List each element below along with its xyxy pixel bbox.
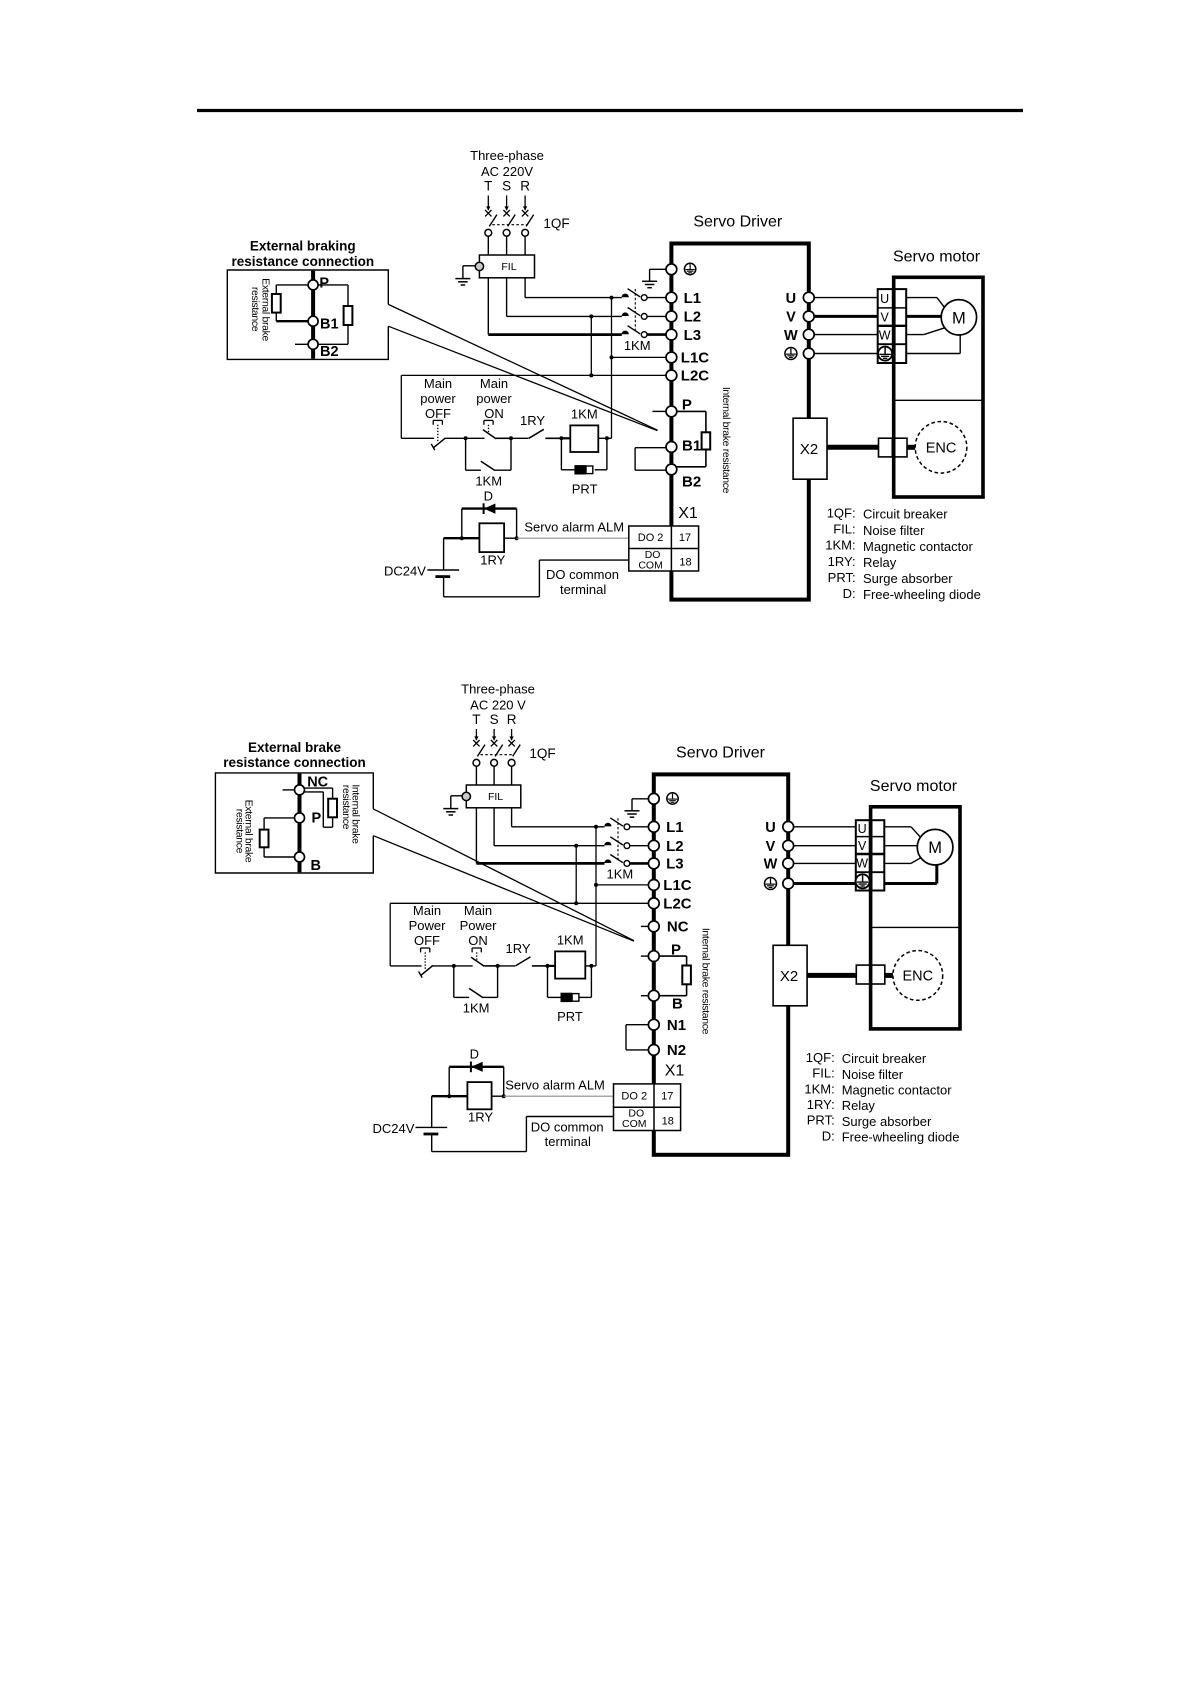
junction dot diode right D2	[502, 1094, 506, 1098]
legend row 1QF D2	[806, 1050, 927, 1066]
svg-text:V: V	[881, 310, 890, 324]
svg-text:Three-phase: Three-phase	[470, 148, 544, 163]
svg-text:R: R	[507, 712, 517, 727]
wire L2 down to L2C D2	[575, 846, 577, 904]
wire 1RY to dot D1	[504, 537, 516, 539]
junction L1C tap D1	[610, 355, 614, 359]
svg-text:DO common: DO common	[546, 567, 619, 582]
pushbutton Main power ON D2	[454, 948, 498, 966]
svg-text:PRT:: PRT:	[828, 570, 856, 585]
svg-text:External brake: External brake	[248, 740, 342, 755]
earth symbol at driver input D1	[684, 263, 695, 274]
svg-text:S: S	[490, 712, 499, 727]
svg-text:PRT: PRT	[572, 482, 598, 497]
surge absorber PRT body2 D2	[572, 994, 579, 1002]
internal brake resistance branch D1	[677, 411, 706, 466]
motor M circle D1	[941, 300, 976, 335]
magnetic contactor 1KM main contact L1 D2	[604, 818, 649, 830]
junction dot coil-PRT D2	[589, 964, 593, 968]
svg-text:L2C: L2C	[681, 368, 710, 385]
svg-text:DO common: DO common	[531, 1119, 604, 1134]
junction dot diode left D1	[460, 536, 464, 540]
stub NC ext D2	[283, 789, 295, 791]
earth symbol at driver input D2	[667, 793, 678, 804]
svg-text:resistance connection: resistance connection	[232, 254, 375, 269]
ground at FIL D1	[455, 266, 475, 285]
terminal B1 D1	[666, 442, 677, 453]
svg-text:ON: ON	[468, 933, 488, 948]
wire L2C left drop D1	[400, 375, 402, 438]
svg-text:D: D	[470, 1047, 479, 1062]
circuit breaker 1QF pole S D1	[503, 210, 515, 236]
svg-text:L1: L1	[684, 290, 702, 307]
svg-text:D:: D:	[843, 586, 856, 601]
svg-text:1KM:: 1KM:	[825, 538, 855, 553]
1KM auxiliary contact branch D2	[454, 966, 498, 998]
wire L2C feed D2	[390, 902, 649, 904]
cable stub to ENC D2	[885, 973, 893, 978]
1KM linkage dashed D1	[634, 289, 636, 333]
svg-text:Three-phase: Three-phase	[461, 682, 535, 697]
terminal L3 D1	[666, 329, 677, 340]
svg-text:Magnetic contactor: Magnetic contactor	[842, 1083, 953, 1098]
svg-text:T: T	[484, 179, 492, 194]
cable stub to ENC D1	[907, 445, 915, 450]
terminal P ext D1	[308, 280, 318, 290]
svg-text:P: P	[319, 276, 329, 292]
junction dot ON-1RY D1	[509, 436, 513, 440]
wire FIL to L2 D2	[493, 808, 495, 846]
svg-text:P: P	[312, 811, 322, 827]
external brake resistor branch D1	[276, 285, 308, 321]
svg-text:DO 2: DO 2	[621, 1090, 647, 1102]
svg-text:1QF:: 1QF:	[827, 506, 856, 521]
svg-text:Servo motor: Servo motor	[893, 248, 981, 265]
jumper N1-N2 D2	[626, 1025, 649, 1050]
junction L2 tap D1	[589, 314, 593, 318]
svg-text:L2: L2	[684, 309, 702, 326]
svg-text:terminal: terminal	[560, 582, 606, 597]
wire L1 horizontal D2	[512, 826, 605, 828]
terminal L2C D2	[648, 898, 659, 909]
svg-text:U: U	[786, 291, 796, 307]
legend row D D1	[843, 586, 981, 602]
motor terminal strip D2	[856, 820, 885, 890]
resistor internal ext D1	[344, 306, 353, 325]
wire FIL to L3 D1	[487, 278, 489, 335]
earth symbol output D2	[765, 878, 777, 890]
wire FIL to L2 D1	[506, 278, 508, 317]
pushbutton Main power OFF D2	[390, 948, 454, 978]
svg-text:B2: B2	[682, 474, 701, 491]
wire breaker to FIL D1	[487, 236, 489, 255]
motor compartment divider D2	[871, 926, 960, 928]
legend row 1QF D1	[827, 506, 949, 522]
magnetic contactor 1KM main contact L2 D1	[622, 308, 667, 320]
svg-text:X2: X2	[780, 968, 798, 985]
svg-text:Main: Main	[480, 376, 508, 391]
circuit breaker 1QF linkage dashed D1	[492, 224, 526, 226]
svg-text:B: B	[311, 858, 321, 874]
relay contact 1RY D1	[511, 429, 561, 438]
terminal E D2	[648, 793, 659, 804]
relay coil 1RY D1	[479, 523, 504, 552]
junction dot 1RY-coil D1	[559, 436, 563, 440]
wire U strip to M D2	[884, 827, 921, 838]
resistor external brake D2	[260, 830, 269, 848]
encoder cable X2 to motor D2	[807, 973, 856, 978]
junction L2C tap D1	[589, 373, 593, 377]
wire to 1KM coil D1	[561, 437, 570, 439]
wire breaker to FIL D1	[506, 236, 508, 255]
free-wheeling diode D D1	[462, 503, 517, 538]
1KM auxiliary contact branch D1	[466, 438, 511, 470]
label DO common terminal D2	[531, 1119, 604, 1149]
wire V driver to strip D2	[794, 845, 856, 847]
driver output terminal U D1	[803, 292, 814, 303]
wire L2 horizontal D1	[507, 315, 622, 317]
label external brake resistance D1	[249, 278, 272, 341]
wire V driver to strip D1	[814, 315, 878, 318]
wire breaker to FIL D2	[475, 766, 477, 785]
resistor external brake D1	[272, 294, 281, 313]
wire to 1KM coil D2	[548, 965, 556, 967]
wire L1 down to control D2	[595, 827, 597, 966]
svg-text:T: T	[472, 712, 480, 727]
strip earth symbol D2	[856, 874, 870, 888]
junction dot 1RY-coil D2	[546, 964, 550, 968]
terminal NC ext D2	[295, 785, 305, 795]
legend row PRT D1	[828, 570, 954, 586]
svg-text:D:: D:	[822, 1128, 835, 1143]
svg-text:1KM: 1KM	[475, 474, 502, 489]
magnetic contactor 1KM main contact L2 D2	[604, 837, 649, 849]
servo driver enclosure D2	[654, 774, 788, 1154]
1KM linkage dashed D2	[617, 818, 619, 862]
encoder cable X2 to motor D1	[827, 445, 879, 450]
jumper B1-B2 D1	[635, 448, 666, 471]
external brake resistor branch D2	[264, 818, 294, 857]
svg-text:1KM: 1KM	[557, 933, 584, 948]
wire L1 horizontal D1	[525, 297, 622, 299]
svg-text:Noise filter: Noise filter	[842, 1067, 904, 1082]
svg-text:power: power	[420, 391, 456, 406]
magnetic contactor 1KM main contact L3 D2	[604, 855, 649, 867]
terminal N1 D2	[648, 1019, 659, 1030]
motor terminal strip D1	[878, 289, 907, 363]
wire W driver to strip D1	[814, 334, 878, 336]
wire 1RY to dot D2	[492, 1095, 504, 1097]
B terminal stub D2	[641, 995, 649, 997]
noise filter FIL D1	[479, 255, 534, 278]
junction dot OFF-ON D2	[452, 964, 456, 968]
junction L2C tap D2	[574, 901, 578, 905]
circuit breaker 1QF pole T D2	[473, 740, 485, 766]
svg-text:Surge absorber: Surge absorber	[863, 571, 953, 586]
svg-text:V: V	[766, 839, 776, 855]
svg-text:U: U	[765, 820, 775, 836]
svg-text:1RY:: 1RY:	[807, 1097, 835, 1112]
connector X1 table D1	[629, 526, 699, 571]
top rule	[197, 109, 1023, 112]
svg-text:1QF:: 1QF:	[806, 1050, 835, 1065]
svg-text:Relay: Relay	[842, 1098, 876, 1113]
svg-text:Servo alarm ALM: Servo alarm ALM	[505, 1077, 605, 1092]
wire V strip to M D2	[884, 845, 917, 847]
wire FIL to L3 D2	[475, 808, 477, 864]
circuit breaker 1QF linkage dashed D2	[480, 754, 513, 756]
svg-text:1RY: 1RY	[468, 1110, 493, 1125]
arrow from T D2	[475, 729, 477, 740]
wire coil to corner D1	[598, 437, 611, 439]
legend row FIL D2	[812, 1066, 903, 1082]
servo alarm ALM wire D1	[517, 537, 629, 539]
magnetic contactor coil 1KM D1	[570, 425, 598, 452]
ground at FIL D2	[443, 796, 462, 815]
noise filter FIL D2	[466, 785, 521, 808]
servo motor enclosure D2	[871, 807, 960, 1029]
svg-text:Power: Power	[409, 918, 447, 933]
svg-text:1KM:: 1KM:	[804, 1081, 834, 1096]
terminal N2 D2	[648, 1045, 659, 1056]
terminal E D1	[666, 264, 677, 275]
wire L1C feed D2	[596, 884, 649, 886]
bus bar D1 ext	[311, 271, 315, 359]
terminal P ext D2	[295, 813, 305, 823]
svg-text:V: V	[858, 839, 867, 853]
terminal L1 D1	[666, 292, 677, 303]
terminal L2C D1	[666, 370, 677, 381]
svg-text:Relay: Relay	[863, 555, 897, 570]
wire breaker to FIL D2	[493, 766, 495, 785]
battery DC24V D1	[427, 538, 459, 597]
svg-text:OFF: OFF	[425, 406, 451, 421]
arrow from S D1	[506, 196, 508, 210]
svg-text:FIL: FIL	[488, 791, 503, 803]
arrow from T D1	[487, 196, 489, 210]
svg-text:1RY: 1RY	[520, 413, 545, 428]
svg-text:Main: Main	[464, 903, 492, 918]
svg-text:Internal brake resistance: Internal brake resistance	[720, 387, 732, 494]
junction dot OFF-ON D1	[464, 436, 468, 440]
P terminal stub D1	[652, 410, 666, 412]
junction dot ON-1RY D2	[496, 964, 500, 968]
label external brake resistance D2	[234, 800, 255, 863]
terminal L2 D1	[666, 311, 677, 322]
wire L3 horizontal bold D1	[488, 333, 622, 336]
arrow from R D1	[524, 196, 526, 210]
wire breaker to FIL D1	[524, 236, 526, 255]
wire L1C feed D1	[612, 356, 667, 358]
svg-text:X1: X1	[665, 1063, 685, 1080]
svg-text:resistance connection: resistance connection	[223, 755, 366, 770]
wire FIL to L1 D1	[524, 278, 526, 298]
connector X2 D1	[793, 418, 827, 479]
label DO common terminal D1	[546, 567, 619, 597]
svg-text:18: 18	[679, 557, 691, 569]
svg-text:ENC: ENC	[902, 969, 933, 985]
wire L3 horizontal bold D2	[476, 862, 604, 865]
svg-text:1RY: 1RY	[505, 941, 530, 956]
svg-text:L2C: L2C	[663, 896, 692, 913]
label DO COM D2	[622, 1108, 647, 1131]
svg-text:1KM: 1KM	[607, 867, 634, 882]
cable connector at motor D2	[856, 965, 885, 984]
svg-text:Servo Driver: Servo Driver	[676, 744, 766, 761]
wire battery to 1RY D1	[444, 537, 480, 539]
svg-text:resistance: resistance	[234, 809, 246, 854]
DO common wire D1	[444, 560, 629, 597]
label internal brake resistance ext D2	[340, 784, 362, 844]
terminal L3 D2	[648, 858, 659, 869]
internal brake resistance branch D2	[659, 956, 687, 996]
bus bar D2 ext	[298, 774, 302, 873]
circuit breaker 1QF pole S D2	[491, 740, 503, 766]
svg-text:NC: NC	[667, 919, 689, 936]
svg-text:B1: B1	[320, 317, 339, 333]
pushbutton Main power OFF D1	[401, 420, 465, 450]
svg-text:18: 18	[662, 1115, 674, 1127]
terminal B2 D1	[666, 464, 677, 475]
terminal L1C D1	[666, 352, 677, 363]
motor M circle D2	[917, 829, 953, 865]
surge absorber PRT body D2	[561, 993, 573, 1002]
legend row 1KM D2	[804, 1081, 952, 1097]
legend row 1RY D1	[828, 554, 897, 570]
FIL ground terminal D1	[475, 262, 483, 270]
svg-text:M: M	[952, 309, 966, 327]
surge absorber PRT body D1	[574, 465, 586, 474]
svg-text:FIL:: FIL:	[812, 1066, 834, 1081]
junction L2 tap D2	[574, 844, 578, 848]
resistor internal ext D2	[328, 799, 337, 818]
surge absorber PRT branch D2	[548, 966, 592, 998]
driver output terminal W D2	[783, 858, 794, 869]
svg-text:Free-wheeling diode: Free-wheeling diode	[863, 587, 981, 602]
strip earth symbol D1	[878, 347, 892, 361]
terminal B1 ext D1	[308, 316, 318, 326]
svg-text:COM: COM	[622, 1118, 647, 1130]
svg-text:B1: B1	[682, 438, 701, 455]
connector X2 D2	[773, 945, 807, 1006]
svg-text:OFF: OFF	[414, 933, 440, 948]
arrow from R D2	[511, 729, 513, 740]
encoder ENC circle D1	[915, 422, 967, 474]
legend row D D2	[822, 1128, 960, 1144]
svg-text:17: 17	[679, 532, 691, 544]
junction L1C tap D2	[594, 883, 598, 887]
label Main power OFF D1	[420, 376, 456, 421]
svg-text:1RY:: 1RY:	[828, 554, 856, 569]
magnetic contactor 1KM main contact L1 D1	[622, 289, 667, 301]
driver output terminal E D1	[803, 348, 814, 359]
cable connector divider D2	[869, 965, 872, 984]
svg-text:ON: ON	[484, 406, 504, 421]
arrow from S D2	[493, 729, 495, 740]
junction dot diode left D2	[447, 1094, 451, 1098]
svg-text:L1C: L1C	[663, 877, 692, 894]
surge absorber PRT body2 D1	[586, 466, 593, 474]
svg-text:ENC: ENC	[926, 441, 957, 457]
wire breaker to FIL D2	[511, 766, 513, 785]
surge absorber PRT branch D1	[561, 438, 607, 470]
wire earth strip to M D1	[906, 334, 960, 354]
wire W strip to M D2	[884, 858, 921, 864]
svg-text:Internal brake resistance: Internal brake resistance	[699, 928, 711, 1035]
svg-text:Servo Driver: Servo Driver	[693, 214, 783, 231]
svg-text:resistance: resistance	[249, 287, 261, 332]
terminal L1 D2	[648, 821, 659, 832]
svg-text:W: W	[856, 857, 868, 871]
svg-text:Circuit breaker: Circuit breaker	[842, 1051, 927, 1066]
label Main power ON D2	[460, 903, 498, 948]
svg-text:X2: X2	[800, 441, 818, 458]
svg-text:Noise filter: Noise filter	[863, 523, 925, 538]
magnetic contactor 1KM main contact L3 D1	[622, 326, 667, 338]
wire L2 down to L2C D1	[590, 316, 592, 375]
DO common wire D2	[432, 1117, 614, 1152]
wire U driver to strip D1	[814, 297, 878, 299]
wire U strip to M D1	[906, 298, 945, 308]
svg-text:Main: Main	[413, 903, 441, 918]
wire earth strip to M D2	[884, 864, 937, 884]
legend row 1RY D2	[807, 1097, 876, 1113]
wire L2C feed D1	[401, 374, 666, 376]
label External brake resistance connection D2	[223, 740, 366, 770]
svg-text:1RY: 1RY	[480, 553, 505, 568]
svg-text:AC 220 V: AC 220 V	[470, 698, 526, 713]
callout wedge lines D2	[373, 809, 634, 941]
resistor internal brake D2	[682, 966, 691, 985]
free-wheeling diode D D2	[449, 1062, 504, 1097]
relay contact 1RY D2	[498, 957, 548, 966]
connector X1 table D2	[614, 1084, 681, 1131]
driver output terminal V D1	[803, 311, 814, 322]
wire earth driver to strip D1	[814, 353, 878, 355]
terminal B2 ext D1	[308, 339, 318, 349]
wire coil to corner D2	[585, 965, 596, 967]
ground at driver earth terminal D2	[625, 799, 649, 817]
relay coil 1RY D2	[467, 1082, 491, 1109]
svg-text:resistance: resistance	[340, 785, 352, 830]
callout box D1	[227, 270, 388, 359]
terminal P D2	[648, 951, 659, 962]
NC terminal stub D2	[641, 925, 649, 927]
svg-text:External braking: External braking	[250, 239, 356, 254]
driver output terminal E D2	[783, 878, 794, 889]
driver output terminal U D2	[783, 821, 794, 832]
encoder ENC circle D2	[893, 951, 943, 1001]
svg-text:Circuit breaker: Circuit breaker	[863, 507, 948, 522]
svg-text:Servo motor: Servo motor	[870, 778, 958, 795]
svg-text:Free-wheeling diode: Free-wheeling diode	[842, 1129, 960, 1144]
svg-text:L2: L2	[666, 838, 684, 855]
svg-text:AC 220V: AC 220V	[481, 164, 533, 179]
P terminal stub D2	[641, 955, 649, 957]
svg-text:W: W	[764, 857, 778, 873]
svg-text:PRT: PRT	[557, 1009, 583, 1024]
svg-text:DC24V: DC24V	[384, 564, 426, 579]
label Main power ON D1	[476, 376, 512, 421]
circuit breaker 1QF pole R D2	[508, 740, 520, 766]
svg-text:FIL:: FIL:	[833, 522, 855, 537]
terminal L1C D2	[648, 880, 659, 891]
wire W strip to M D1	[906, 328, 945, 335]
legend row PRT D2	[807, 1113, 932, 1129]
magnetic contactor coil 1KM D2	[555, 951, 585, 978]
terminal B1 D2	[648, 990, 659, 1001]
svg-text:Surge absorber: Surge absorber	[842, 1114, 932, 1129]
